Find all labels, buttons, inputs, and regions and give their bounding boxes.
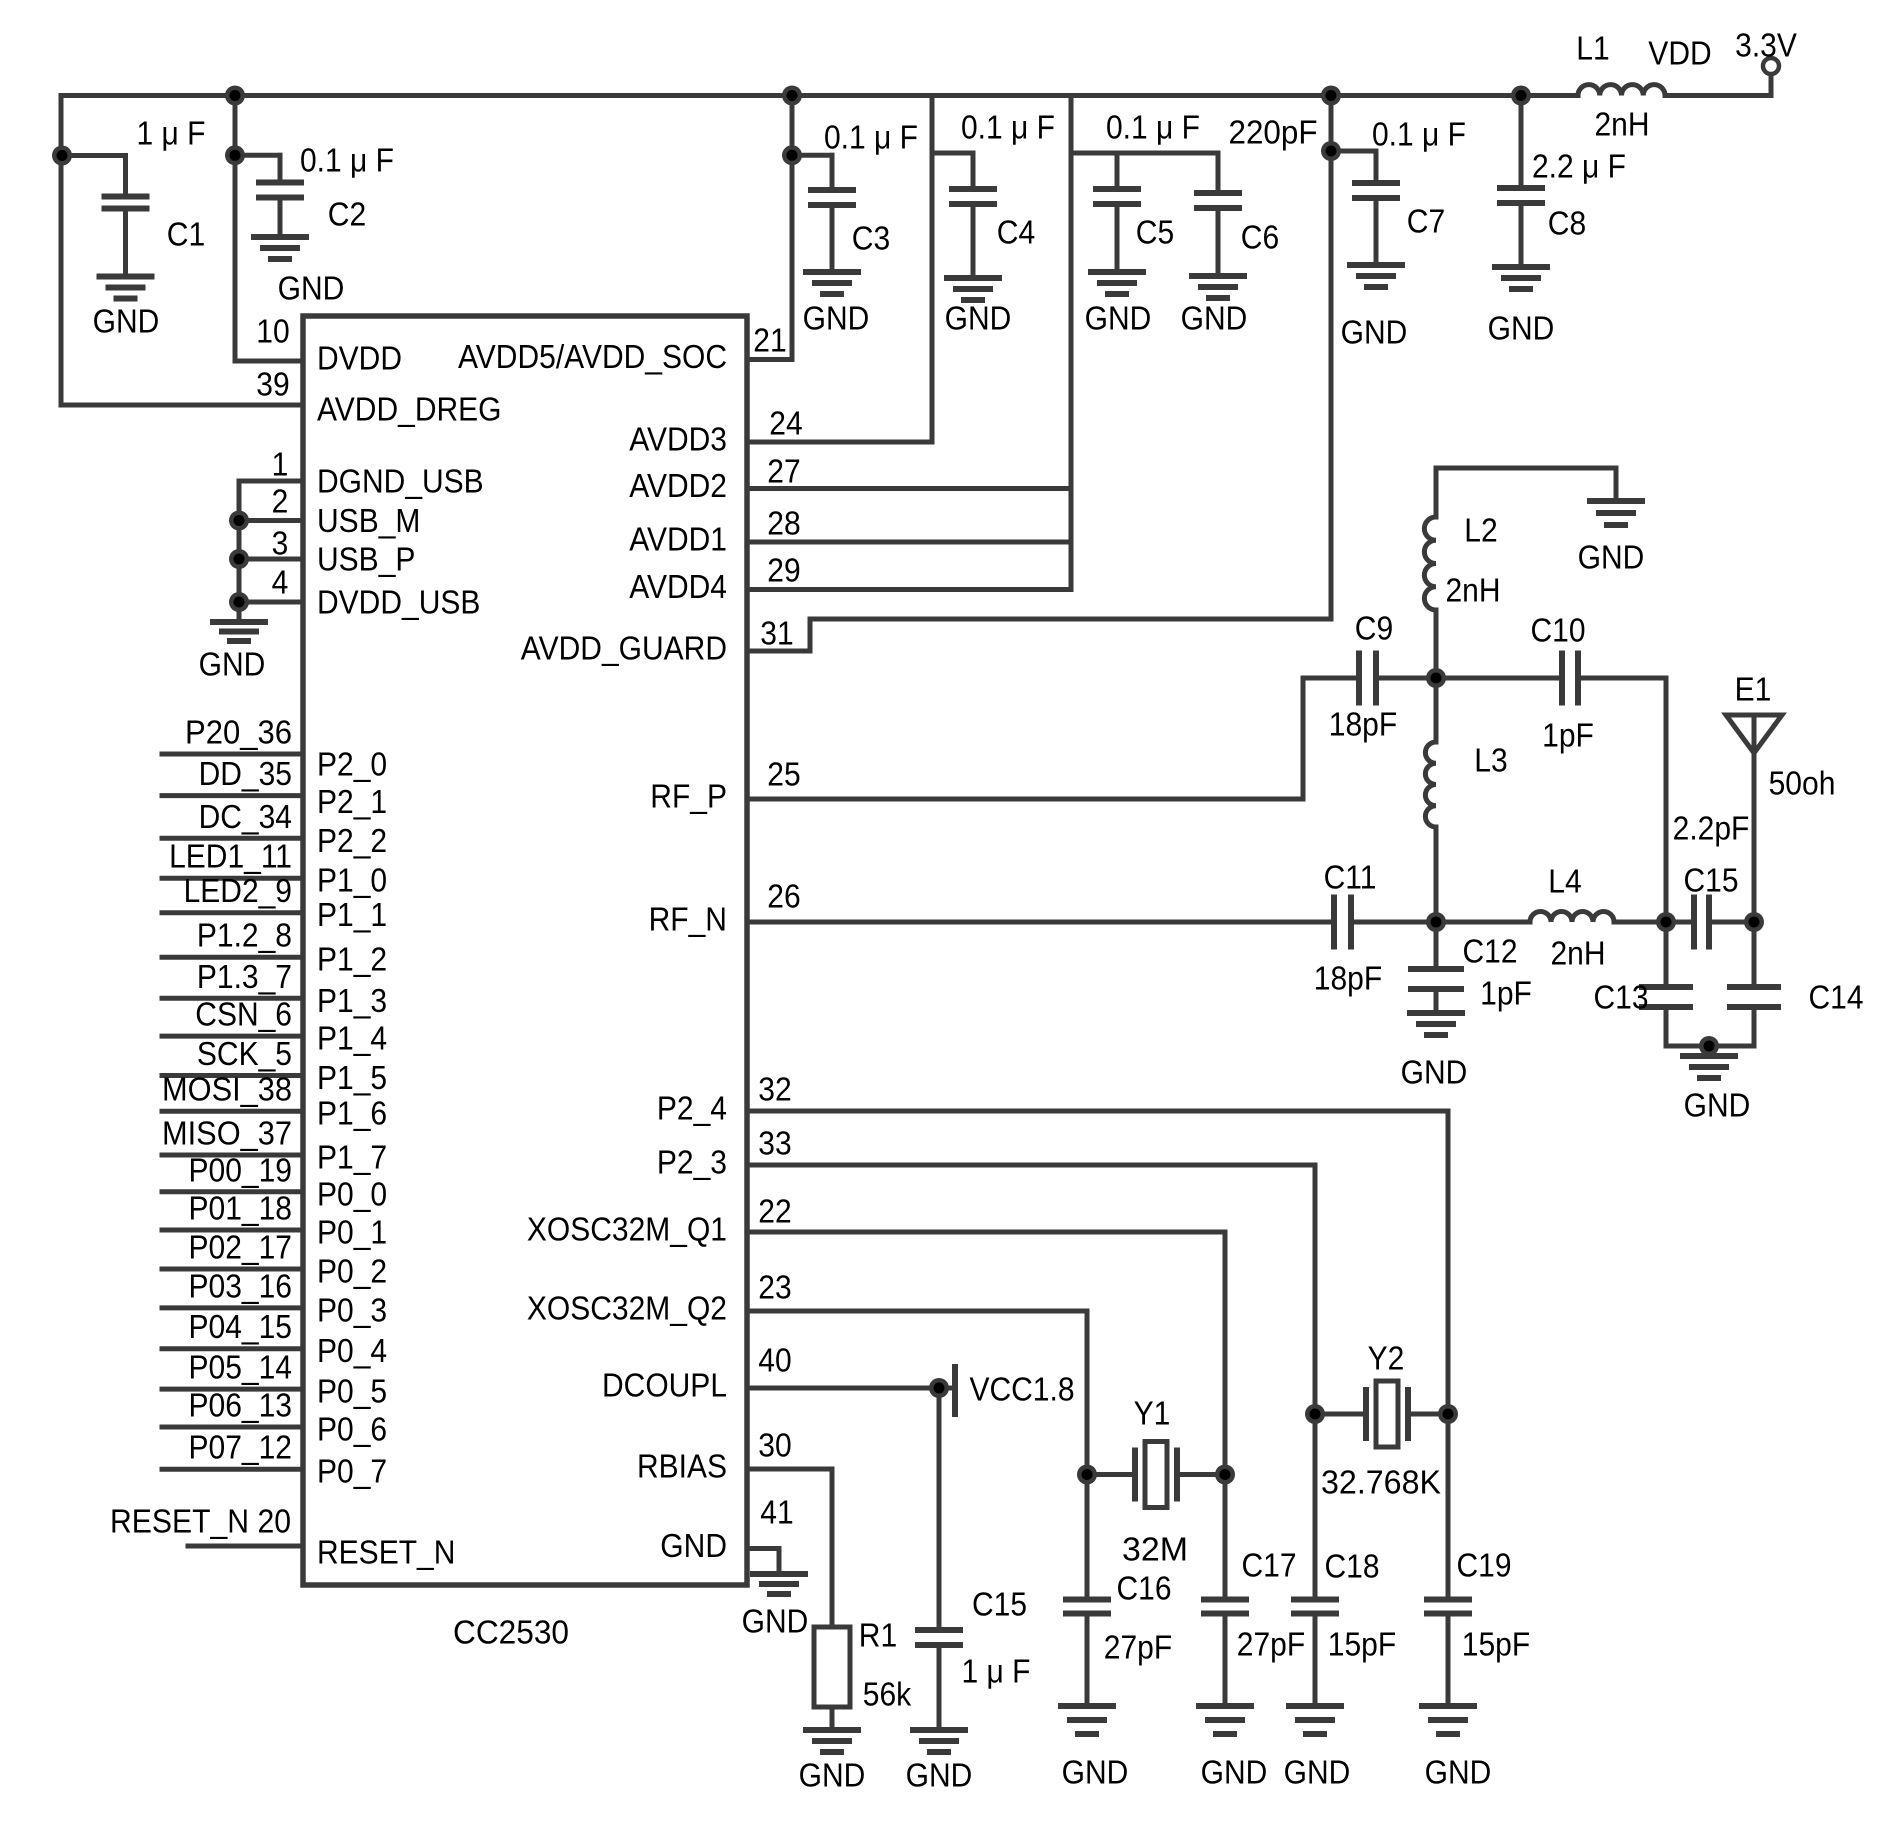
wire USB ground vertical — [237, 481, 242, 602]
node antenna/C14 — [1744, 912, 1764, 932]
junction rail/AVDD_GUARD — [1321, 86, 1341, 106]
svg-text:4: 4 — [272, 564, 289, 601]
svg-text:21: 21 — [753, 322, 786, 359]
ground C7 — [1347, 262, 1405, 268]
svg-text:GND: GND — [278, 270, 345, 307]
capacitor C8 2.2uF — [1519, 96, 1524, 189]
wire RESET_N stub — [188, 1544, 303, 1549]
svg-text:L2: L2 — [1464, 512, 1497, 549]
svg-text:31: 31 — [760, 615, 793, 652]
wire pin 1 DGND_USB — [239, 479, 303, 484]
svg-text:24: 24 — [769, 405, 802, 442]
svg-text:27: 27 — [767, 453, 800, 490]
wire AVDD_GUARD vertical — [1329, 96, 1334, 620]
ground C1 — [97, 274, 155, 280]
wire port stub P05_14 — [162, 1387, 303, 1392]
junction DVDD_USB — [229, 592, 249, 612]
svg-text:DD_35: DD_35 — [199, 755, 292, 792]
wire pin 3 USB_P — [239, 557, 303, 562]
svg-text:GND: GND — [1085, 300, 1152, 337]
svg-text:P01_18: P01_18 — [189, 1190, 293, 1227]
svg-text:E1: E1 — [1735, 671, 1772, 708]
junction Y2 left — [1305, 1404, 1325, 1424]
ground C18 — [1286, 1703, 1344, 1709]
wire port stub P07_12 — [162, 1467, 303, 1472]
svg-text:GND: GND — [1341, 314, 1408, 351]
svg-text:26: 26 — [767, 878, 800, 915]
svg-text:P1_5: P1_5 — [317, 1059, 387, 1096]
svg-text:0.1 μ F: 0.1 μ F — [300, 142, 394, 179]
wire pin 4 DVDD_USB — [239, 600, 303, 605]
svg-text:C13: C13 — [1594, 979, 1649, 1016]
ground C12 — [1407, 1010, 1465, 1016]
ground C6 — [1189, 273, 1247, 279]
svg-text:GND: GND — [660, 1527, 727, 1564]
svg-text:2: 2 — [272, 483, 289, 520]
wire port stub P04_15 — [162, 1346, 303, 1351]
svg-text:CC2530: CC2530 — [453, 1614, 569, 1651]
svg-text:2nH: 2nH — [1551, 935, 1606, 972]
wire AVDD3 vertical (pin24 net) — [930, 96, 935, 443]
wire C2 branch — [235, 153, 280, 158]
svg-text:XOSC32M_Q1: XOSC32M_Q1 — [527, 1211, 727, 1248]
svg-text:30: 30 — [758, 1427, 791, 1464]
wire port stub P1.3_7 — [162, 996, 303, 1001]
wire port stub P01_18 — [162, 1228, 303, 1233]
svg-text:DC_34: DC_34 — [199, 798, 292, 835]
wire C3 branch — [792, 153, 832, 158]
IC U1 CC2530 box — [303, 316, 747, 1585]
wire C7 branch — [1331, 149, 1376, 154]
node RF_N match — [1426, 912, 1446, 932]
svg-text:0.1 μ F: 0.1 μ F — [1372, 116, 1466, 153]
junction C13/C14 ground — [1699, 1036, 1719, 1056]
svg-text:1 μ F: 1 μ F — [962, 1653, 1031, 1690]
wire pin39 AVDD_DREG — [61, 403, 303, 408]
svg-text:GND: GND — [1401, 1054, 1468, 1091]
svg-text:VDD: VDD — [1648, 35, 1711, 72]
svg-text:P2_1: P2_1 — [317, 783, 387, 820]
svg-text:40: 40 — [758, 1342, 791, 1379]
wire C5/C6 branch — [1071, 151, 1218, 156]
svg-text:P1_3: P1_3 — [317, 982, 387, 1019]
svg-text:23: 23 — [758, 1269, 791, 1306]
ground C8 — [1492, 264, 1550, 270]
resistor R1 56k — [814, 1627, 850, 1707]
ground C19 — [1419, 1703, 1477, 1709]
svg-text:GND: GND — [906, 1757, 973, 1794]
wire pin24 AVDD3 — [747, 440, 932, 445]
svg-text:P1_0: P1_0 — [317, 862, 387, 899]
wire port stub LED1_11 — [162, 876, 303, 881]
wire C4 branch — [932, 151, 973, 156]
svg-text:C15: C15 — [1684, 862, 1739, 899]
svg-text:P03_16: P03_16 — [189, 1267, 293, 1304]
wire port stub LED2_9 — [162, 910, 303, 915]
svg-text:P07_12: P07_12 — [189, 1429, 293, 1466]
svg-text:C14: C14 — [1809, 979, 1864, 1016]
svg-text:C7: C7 — [1407, 203, 1445, 240]
svg-text:VCC1.8: VCC1.8 — [969, 1371, 1074, 1408]
svg-text:0.1 μ F: 0.1 μ F — [824, 119, 918, 156]
capacitor C9 18pF — [1356, 651, 1362, 706]
junction Y1 right — [1215, 1465, 1235, 1485]
wire RBIAS pin30 — [747, 1467, 832, 1472]
junction rail/C8 — [1511, 86, 1531, 106]
svg-text:C5: C5 — [1136, 214, 1174, 251]
svg-text:32: 32 — [758, 1071, 791, 1108]
svg-text:GND: GND — [803, 300, 870, 337]
svg-text:18pF: 18pF — [1329, 706, 1397, 743]
wire C10 to antenna node — [1664, 678, 1669, 922]
svg-text:C19: C19 — [1457, 1547, 1512, 1584]
wire pin31 AVDD_GUARD — [747, 649, 810, 654]
svg-text:32M: 32M — [1122, 1531, 1188, 1568]
wire pin10 DVDD — [235, 359, 303, 364]
capacitor C18 15pF — [1313, 1414, 1318, 1600]
svg-text:28: 28 — [767, 505, 800, 542]
svg-text:GND: GND — [1201, 1754, 1268, 1791]
ground C17 — [1196, 1703, 1254, 1709]
crystal Y2 32.768K — [1315, 1412, 1366, 1417]
svg-text:P05_14: P05_14 — [189, 1349, 293, 1386]
wire pin41 GND — [747, 1546, 779, 1551]
svg-text:27pF: 27pF — [1104, 1629, 1172, 1666]
svg-text:18pF: 18pF — [1314, 960, 1382, 997]
wire port stub P02_17 — [162, 1267, 303, 1272]
svg-text:39: 39 — [256, 366, 289, 403]
wire port stub P06_13 — [162, 1425, 303, 1430]
svg-text:3: 3 — [272, 525, 289, 562]
svg-text:P2_2: P2_2 — [317, 822, 387, 859]
wire pin28 AVDD1 — [747, 540, 1071, 545]
wire port stub MOSI_38 — [162, 1109, 303, 1114]
svg-text:L3: L3 — [1474, 742, 1507, 779]
wire L2 top to ground — [1436, 466, 1616, 471]
wire port stub P20_36 — [162, 752, 303, 757]
svg-text:29: 29 — [767, 552, 800, 589]
inductor L3 2nH — [1434, 678, 1439, 742]
svg-text:C15: C15 — [972, 1586, 1027, 1623]
svg-text:L1: L1 — [1576, 30, 1609, 67]
svg-text:56k: 56k — [863, 1676, 912, 1713]
capacitor C2 0.1uF — [256, 180, 304, 186]
svg-text:XOSC32M_Q2: XOSC32M_Q2 — [527, 1290, 727, 1327]
svg-text:DVDD: DVDD — [317, 340, 402, 377]
svg-text:P20_36: P20_36 — [185, 714, 292, 751]
svg-text:DGND_USB: DGND_USB — [317, 463, 484, 500]
ground C5 — [1088, 269, 1146, 275]
svg-text:DCOUPL: DCOUPL — [602, 1367, 727, 1404]
terminal VCC1.8 — [952, 1364, 958, 1417]
svg-text:0.1 μ F: 0.1 μ F — [1106, 109, 1200, 146]
wire port stub CSN_6 — [162, 1034, 303, 1039]
svg-text:C11: C11 — [1324, 859, 1377, 896]
svg-text:15pF: 15pF — [1462, 1626, 1530, 1663]
wire port stub DC_34 — [162, 836, 303, 841]
capacitor C10 1pF — [1436, 676, 1559, 681]
svg-text:P2_3: P2_3 — [657, 1144, 727, 1181]
wire XOSC32M_Q1 pin22 — [747, 1230, 1225, 1235]
wire DVDD vertical (pin10 net) — [233, 96, 238, 362]
svg-text:C9: C9 — [1355, 610, 1393, 647]
wire port stub MISO_37 — [162, 1153, 303, 1158]
wire VDD rail to 3.3V terminal — [1665, 93, 1771, 98]
inductor L1 — [1578, 85, 1665, 96]
wire port stub P00_19 — [162, 1189, 303, 1194]
svg-text:L4: L4 — [1548, 863, 1581, 900]
wire port stub P03_16 — [162, 1305, 303, 1310]
svg-text:SCK_5: SCK_5 — [197, 1035, 292, 1072]
svg-text:P1_6: P1_6 — [317, 1095, 387, 1132]
ground C13/C14 — [1680, 1053, 1738, 1059]
wire P2_3 pin33 — [747, 1163, 1315, 1168]
svg-text:P0_6: P0_6 — [317, 1411, 387, 1448]
svg-text:P0_0: P0_0 — [317, 1175, 387, 1212]
svg-text:P1_4: P1_4 — [317, 1020, 387, 1057]
wire VDD rail — [61, 93, 1578, 98]
svg-text:C18: C18 — [1325, 1548, 1380, 1585]
junction Y2 right — [1438, 1404, 1458, 1424]
ground USB — [237, 602, 242, 622]
svg-text:GND: GND — [1684, 1087, 1751, 1124]
wire RF_N pin26 — [747, 920, 1331, 925]
wire DVDD/AVDD_DREG left vertical — [59, 96, 64, 406]
svg-text:RBIAS: RBIAS — [637, 1448, 727, 1485]
ground C2 — [251, 234, 309, 240]
svg-text:P0_3: P0_3 — [317, 1291, 387, 1328]
junction Y1 left — [1077, 1465, 1097, 1485]
svg-text:LED1_11: LED1_11 — [169, 838, 292, 875]
svg-text:AVDD5/AVDD_SOC: AVDD5/AVDD_SOC — [458, 338, 727, 375]
svg-text:P1_1: P1_1 — [317, 896, 387, 933]
wire pin29 AVDD4 — [747, 587, 1071, 592]
wire port stub P1.2_8 — [162, 955, 303, 960]
svg-text:P1.3_7: P1.3_7 — [197, 958, 292, 995]
svg-text:33: 33 — [758, 1125, 791, 1162]
ground C15 — [910, 1727, 968, 1733]
svg-text:2nH: 2nH — [1595, 106, 1650, 143]
svg-text:50oh: 50oh — [1769, 765, 1836, 802]
terminal 3.3V — [1763, 58, 1779, 74]
svg-text:MISO_37: MISO_37 — [162, 1115, 292, 1152]
svg-text:AVDD2: AVDD2 — [629, 467, 727, 504]
wire pin21 AVDD5/AVDD_SOC — [747, 357, 792, 362]
svg-text:P0_4: P0_4 — [317, 1332, 387, 1369]
svg-text:P0_2: P0_2 — [317, 1253, 387, 1290]
ground C16 — [1058, 1703, 1116, 1709]
svg-text:R1: R1 — [859, 1617, 897, 1654]
capacitor C3 0.1uF — [808, 187, 856, 193]
svg-text:C6: C6 — [1241, 219, 1279, 256]
inductor L2 2nH — [1434, 468, 1439, 517]
svg-text:2.2pF: 2.2pF — [1673, 810, 1750, 847]
capacitor C13 — [1664, 922, 1669, 987]
node C7 tap — [1321, 141, 1341, 161]
capacitor C4 0.1uF — [949, 186, 997, 192]
node C2 tap — [225, 145, 245, 165]
svg-text:USB_P: USB_P — [317, 541, 415, 578]
svg-text:C1: C1 — [167, 216, 205, 253]
svg-text:GND: GND — [1425, 1754, 1492, 1791]
svg-text:P1_7: P1_7 — [317, 1139, 387, 1176]
svg-text:GND: GND — [742, 1603, 809, 1640]
svg-text:GND: GND — [1181, 300, 1248, 337]
svg-text:RF_P: RF_P — [650, 778, 727, 815]
svg-text:RESET_N: RESET_N — [317, 1534, 455, 1571]
svg-text:15pF: 15pF — [1328, 1626, 1396, 1663]
wire pin27 AVDD2 — [747, 486, 1071, 491]
svg-text:41: 41 — [760, 1494, 793, 1531]
capacitor C11 18pF — [1331, 895, 1337, 950]
svg-text:USB_M: USB_M — [317, 502, 420, 539]
svg-text:1 μ F: 1 μ F — [137, 115, 206, 152]
svg-text:C8: C8 — [1548, 205, 1586, 242]
svg-text:P04_15: P04_15 — [189, 1308, 293, 1345]
svg-text:C12: C12 — [1463, 933, 1518, 970]
ground C4 — [944, 275, 1002, 281]
capacitor C15 2.2pF — [1666, 920, 1690, 925]
svg-text:RF_N: RF_N — [649, 901, 727, 938]
junction rail/C2 — [225, 86, 245, 106]
node L4/C15/C13 — [1656, 912, 1676, 932]
svg-text:DVDD_USB: DVDD_USB — [317, 584, 480, 621]
ground L2 — [1587, 498, 1645, 504]
svg-text:P06_13: P06_13 — [189, 1387, 293, 1424]
capacitor C7 0.1uF — [1352, 180, 1400, 186]
svg-text:AVDD_GUARD: AVDD_GUARD — [521, 630, 727, 667]
svg-text:P2_4: P2_4 — [657, 1090, 727, 1127]
svg-text:P02_17: P02_17 — [189, 1229, 293, 1266]
svg-text:3.3V: 3.3V — [1735, 27, 1797, 64]
wire port stub SCK_5 — [162, 1073, 303, 1078]
svg-text:0.1 μ F: 0.1 μ F — [961, 109, 1055, 146]
wire XOSC32M_Q2 pin23 — [747, 1309, 1087, 1314]
svg-text:GND: GND — [199, 646, 266, 683]
svg-text:C17: C17 — [1242, 1547, 1297, 1584]
svg-text:P2_0: P2_0 — [317, 746, 387, 783]
svg-text:1pF: 1pF — [1542, 717, 1594, 754]
svg-text:1pF: 1pF — [1480, 975, 1532, 1012]
svg-text:CSN_6: CSN_6 — [195, 996, 292, 1033]
svg-text:10: 10 — [256, 313, 289, 350]
svg-text:P00_19: P00_19 — [189, 1151, 293, 1188]
svg-text:22: 22 — [758, 1193, 791, 1230]
svg-text:AVDD3: AVDD3 — [629, 421, 727, 458]
node C3 tap — [782, 145, 802, 165]
svg-text:32.768K: 32.768K — [1321, 1464, 1441, 1501]
wire AVDD_GUARD horizontal — [810, 617, 1331, 622]
node C1 tap — [52, 146, 72, 166]
node DCOUPL/C15 — [929, 1378, 949, 1398]
svg-text:C4: C4 — [997, 214, 1035, 251]
svg-text:2.2 μ F: 2.2 μ F — [1532, 148, 1626, 185]
svg-text:GND: GND — [1284, 1754, 1351, 1791]
junction USB_P — [229, 549, 249, 569]
wire DCOUPL pin40 — [747, 1386, 953, 1391]
svg-text:GND: GND — [93, 303, 160, 340]
svg-text:Y1: Y1 — [1134, 1395, 1171, 1432]
capacitor C5 0.1uF — [1115, 153, 1120, 189]
svg-text:C2: C2 — [328, 196, 366, 233]
junction USB_M — [229, 511, 249, 531]
svg-text:C3: C3 — [852, 220, 890, 257]
wire port stub DD_35 — [162, 793, 303, 798]
svg-text:AVDD4: AVDD4 — [629, 568, 727, 605]
wire C1 branch — [62, 153, 126, 158]
svg-text:25: 25 — [767, 756, 800, 793]
svg-text:P0_1: P0_1 — [317, 1214, 387, 1251]
svg-text:27pF: 27pF — [1237, 1626, 1305, 1663]
svg-text:RESET_N 20: RESET_N 20 — [110, 1503, 291, 1540]
svg-text:GND: GND — [1578, 539, 1645, 576]
node RF_P match — [1426, 668, 1446, 688]
ground C3 — [803, 269, 861, 275]
wire RF_P pin25 — [747, 797, 799, 802]
junction dot cores — [57, 150, 68, 161]
capacitor C16 27pF — [1085, 1475, 1090, 1600]
svg-text:1: 1 — [272, 446, 289, 483]
svg-text:AVDD_DREG: AVDD_DREG — [317, 391, 502, 428]
svg-text:C16: C16 — [1117, 1570, 1172, 1607]
svg-text:C10: C10 — [1531, 612, 1586, 649]
inductor L4 2nH — [1436, 920, 1530, 925]
wire pin 2 USB_M — [239, 518, 303, 523]
capacitor C17 27pF — [1223, 1475, 1228, 1600]
capacitor C19 15pF — [1446, 1414, 1451, 1600]
svg-text:P1.2_8: P1.2_8 — [197, 917, 292, 954]
svg-text:MOSI_38: MOSI_38 — [162, 1071, 292, 1108]
ground pin41 — [750, 1571, 808, 1577]
antenna E1 — [1726, 715, 1782, 753]
wire AVDD2/1/4 vertical — [1069, 96, 1074, 590]
svg-text:GND: GND — [1062, 1754, 1129, 1791]
capacitor C1 1uF — [102, 194, 150, 200]
svg-text:P1_2: P1_2 — [317, 941, 387, 978]
svg-text:P0_5: P0_5 — [317, 1373, 387, 1410]
svg-text:Y2: Y2 — [1368, 1340, 1405, 1377]
capacitor C15 1uF — [937, 1388, 942, 1630]
svg-text:AVDD1: AVDD1 — [629, 521, 727, 558]
capacitor C14 — [1752, 922, 1757, 987]
junction rail/C3 — [782, 86, 802, 106]
wire P2_4 pin32 — [747, 1109, 1448, 1114]
capacitor C12 1pF — [1434, 922, 1439, 969]
capacitor C6 220pF — [1216, 153, 1221, 193]
svg-text:LED2_9: LED2_9 — [184, 872, 292, 909]
svg-text:GND: GND — [1488, 310, 1555, 347]
ground R1 — [803, 1727, 861, 1733]
svg-text:P0_7: P0_7 — [317, 1453, 387, 1490]
svg-text:GND: GND — [799, 1757, 866, 1794]
svg-text:2nH: 2nH — [1446, 572, 1501, 609]
svg-text:220pF: 220pF — [1229, 114, 1318, 151]
wire AVDD5 vertical (pin21 net) — [790, 96, 795, 360]
crystal Y1 32M — [1087, 1472, 1135, 1477]
svg-text:GND: GND — [945, 300, 1012, 337]
